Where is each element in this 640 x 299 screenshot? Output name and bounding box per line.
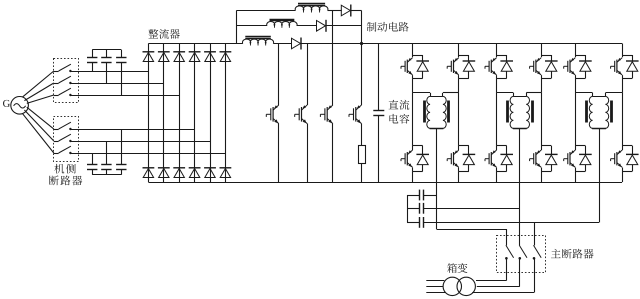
rectifier leg 6 wire [225,44,227,183]
rectifier diode D8 [158,167,170,169]
wire top cell 541.1 emitter to transformer [541,78,543,93]
output filter capacitor C8 [407,195,419,197]
inverter diode D27 [632,146,634,155]
inverter diode D16 [422,55,424,61]
inverter IGBT Q9 (top) [575,44,577,56]
capacitor C2 [106,50,108,57]
rectifier leg 3 wire [179,44,181,183]
wire breaker to grid transformer 1 [506,258,508,280]
DC link capacitor C7 [378,44,380,111]
inverter IGBT Q7 (top) [496,44,498,56]
output filter capacitor tie bar [407,195,409,222]
capacitor C5 [106,141,108,164]
switch S1 in machine-side breaker [54,71,59,73]
main breaker switch S9 [534,245,542,257]
inverter IGBT Q14 (bottom) [541,145,551,147]
wire generator to machine breaker phase U1 [23,71,54,97]
capacitor C1 [92,50,94,57]
inverter diode D24 [506,146,508,155]
main breaker switch S8 [519,245,527,257]
switch S6 in machine-side breaker [54,153,59,155]
rectifier diode D4 [189,51,201,53]
inverter diode D21 [632,55,634,61]
chopper IGBT Q1 [278,44,280,106]
rectifier diode D1 [143,51,155,53]
inverter diode D17 [468,55,470,61]
wire phase 6 to rectifier leg 6 [70,153,225,155]
generator G [11,97,29,115]
braking branch 1 wire [236,10,295,12]
inverter diode D25 [551,146,553,155]
output phase wire 1 [423,195,436,197]
inverter column wire 541.1 [541,93,543,146]
interphase transformer T2 [513,93,515,97]
rectifier leg 4 wire [194,44,196,183]
rectifier leg 1 wire [148,44,150,183]
rectifier diode D6 [220,51,232,53]
wire phase 1 to rectifier leg 1 [70,71,148,73]
rectifier diode D3 [173,51,185,53]
label 制动电路 (braking circuit) [367,22,377,32]
inverter diode D22 [422,146,424,155]
bottom DC bus [148,182,622,184]
inverter diode D26 [585,146,587,155]
label 整流器 (rectifier) [148,29,158,38]
wire phase 5 to rectifier leg 5 [70,141,210,143]
phase output wire leg 1 [436,128,438,229]
label 直流 电容 (DC capacitor) [389,100,399,109]
main breaker switch S7 [506,245,514,257]
output filter capacitor C9 [407,208,419,210]
rectifier diode D10 [189,167,201,169]
braking circuit left bus wire [236,11,238,44]
wire generator to machine breaker phase W1 [27,95,54,103]
inverter IGBT Q8 (top) [541,44,543,56]
grid transformer winding 2 [457,277,475,295]
wire top cell 458.7 emitter to transformer [458,78,460,93]
wire generator to machine breaker phase V1 [24,83,53,101]
output phase wire 2 [423,208,519,210]
inverter IGBT Q12 (bottom) [459,145,469,147]
machine-side breaker box 1 [54,59,79,103]
inverter diode D20 [585,55,587,61]
braking diode D14 [317,21,326,32]
inverter IGBT Q6 (top) [458,44,460,56]
switch S4 in machine-side breaker [54,129,59,131]
rectifier diode D12 [220,167,232,169]
chopper IGBT Q2 [307,44,309,106]
wire top cell 575.2 emitter to transformer [575,78,577,93]
inverter column wire 496.5 [496,93,498,146]
label 机侧 断路器 (machine-side breaker) [54,164,64,174]
wire generator to machine breaker phase W2 [23,114,54,153]
rectifier diode D5 [204,51,216,53]
grid transformer winding 1 [443,277,461,295]
inverter IGBT Q11 (bottom) [413,145,423,147]
wire top cell 622.1 emitter to transformer [622,78,624,93]
rectifier diode D7 [143,167,155,169]
grid stub wire 2 [426,286,443,288]
interphase transformer T1 [430,93,432,97]
switch S2 in machine-side breaker [54,83,59,85]
grid stub wire 1 [426,280,444,282]
wire to main breaker right switch [534,222,536,245]
braking inductor L1 [295,6,328,11]
rectifier diode D2 [158,51,170,53]
machine-side breaker box 2 [54,117,79,162]
inverter diode D18 [506,55,508,61]
switch S3 in machine-side breaker [54,95,59,97]
wire phase 4 to rectifier leg 4 [70,129,194,131]
top DC bus [148,43,242,45]
output phase wire 3 [423,222,599,224]
wire breaker to grid transformer 3 [534,258,536,292]
inverter IGBT Q16 (bottom) [622,145,632,147]
wire top cell 496.5 emitter to transformer [496,78,498,93]
phase output wire leg 2 [519,128,521,245]
chopper IGBT Q3 [332,11,334,106]
wire generator to machine breaker phase U2 [27,107,54,129]
wire generator to machine breaker phase V2 [24,110,53,141]
brake resistor R1 [359,146,366,164]
inverter IGBT Q13 (bottom) [497,145,507,147]
capacitor C4 [92,153,94,164]
braking branch 2 wire [236,25,267,27]
phase output wire leg 3 [599,128,601,222]
braking inductor L2 [267,21,297,25]
inverter column wire 575.2 [575,93,577,146]
inverter diode D19 [551,55,553,61]
inverter IGBT Q10 (top) [622,44,624,56]
rectifier diode D9 [173,167,185,169]
output filter capacitor C10 [407,222,419,224]
wire phase 2 to rectifier leg 2 [70,83,163,85]
inverter column wire 622.1 [622,93,624,146]
label 箱变 (box transformer) [447,263,457,273]
label 主断路器 (main breaker) [551,249,561,258]
main breaker box [497,236,546,273]
braking diode D15 on DC bus [292,38,301,49]
chopper IGBT Q4 [361,11,363,106]
inverter IGBT Q15 (bottom) [575,145,585,147]
inverter column wire 458.7 [458,93,460,146]
inverter diode D23 [468,146,470,155]
rectifier leg 5 wire [210,44,212,183]
capacitor C6 [121,129,123,164]
wire top cell 412.5 emitter to transformer [412,78,414,93]
interphase transformer T3 [592,93,594,97]
inverter column wire 412.5 [412,93,414,146]
rectifier leg 2 wire [163,44,165,183]
wire breaker to grid transformer 2 [519,258,521,286]
wire phase 3 to rectifier leg 3 [70,95,179,97]
filter capacitor bank tie bar (bottom) [92,174,121,176]
filter capacitor bank tie bar (top) [92,49,121,51]
rectifier diode D11 [204,167,216,169]
grid stub wire 3 [426,292,445,294]
switch S5 in machine-side breaker [54,141,59,143]
braking inductor L3 on DC bus [242,39,273,43]
capacitor C3 [121,50,123,57]
braking diode D13 [341,5,350,16]
inverter IGBT Q5 (top) [412,44,414,56]
